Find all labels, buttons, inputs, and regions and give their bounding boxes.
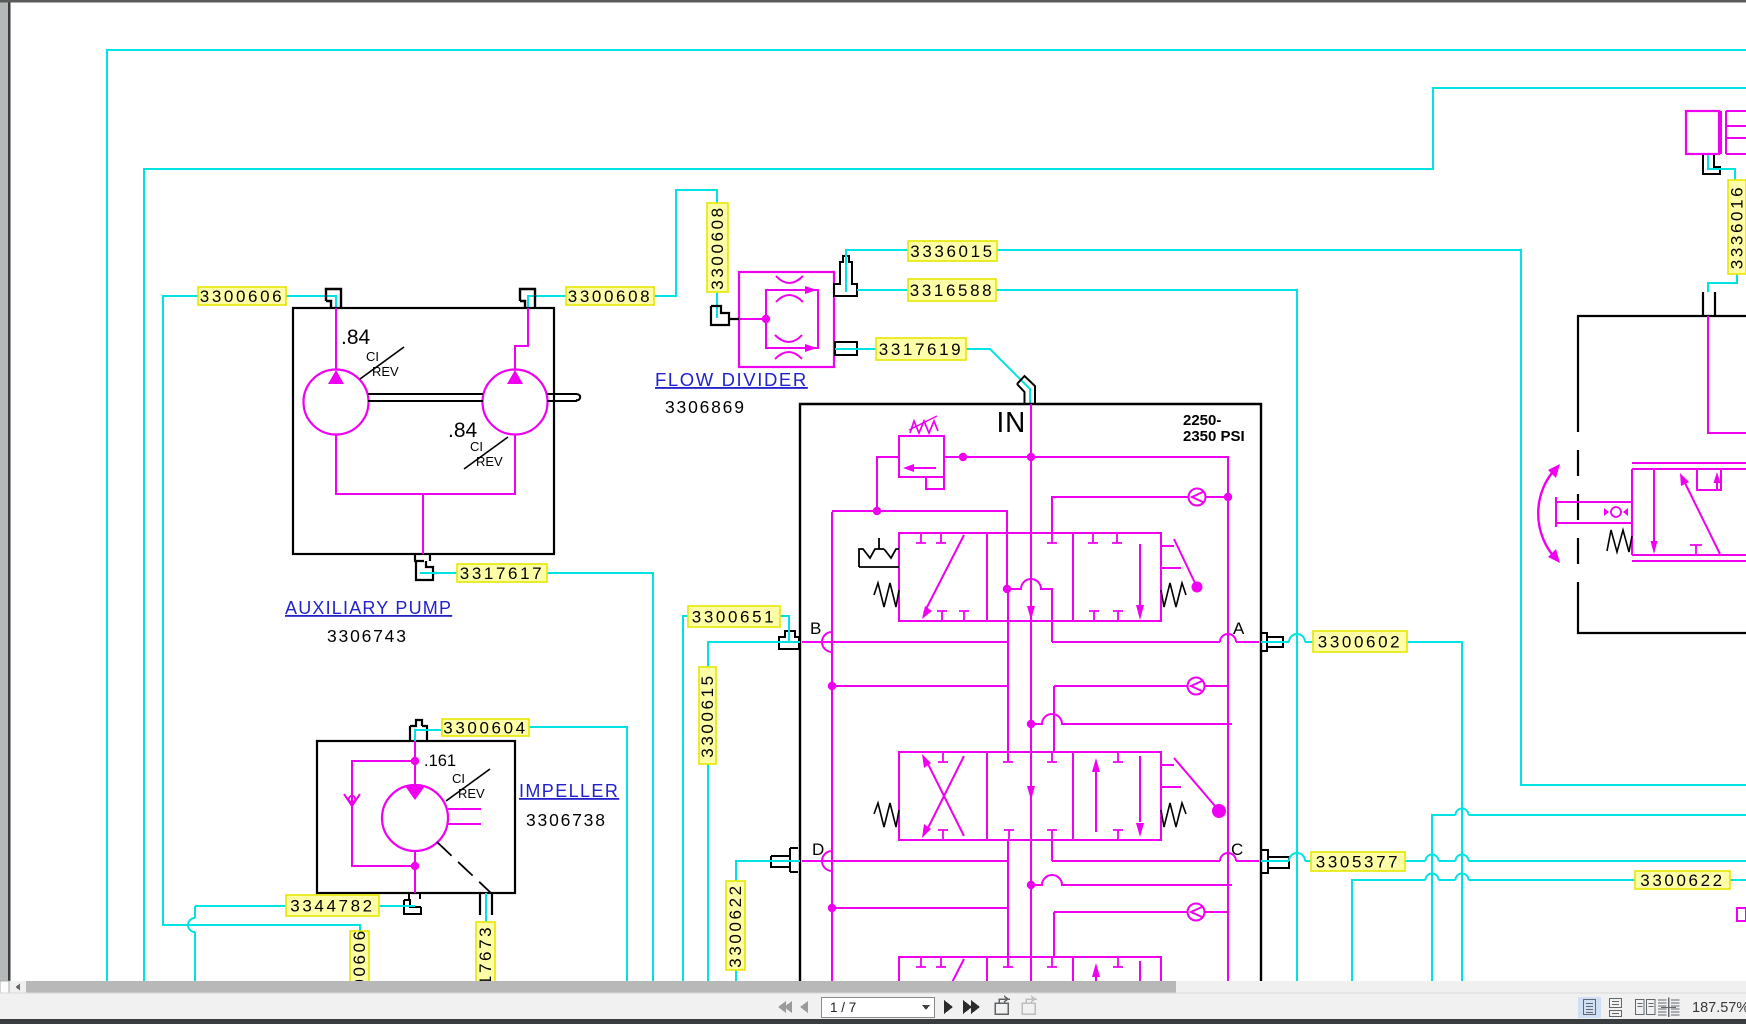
label 3305377	[1311, 852, 1405, 871]
wire port B line	[802, 533, 1008, 762]
label 3300622 right	[1635, 871, 1730, 889]
label 3300608 vertical	[707, 203, 728, 292]
impeller check symbol	[344, 794, 360, 806]
label 3300651	[688, 606, 780, 627]
svg-text:IMPELLER: IMPELLER	[519, 781, 619, 801]
check valve CV1	[1052, 497, 1228, 533]
impeller shaft lines	[448, 809, 481, 824]
auxiliary pump block 3306743	[293, 308, 554, 554]
svg-text:REV: REV	[458, 786, 485, 801]
valve V1 right spring	[1161, 583, 1186, 607]
valve V2 right spring	[1161, 803, 1186, 827]
top border	[0, 0, 1746, 3]
impeller bypass loop	[352, 761, 415, 893]
hop port A over right rail	[1220, 634, 1236, 642]
svg-text:187.57%: 187.57%	[1692, 1000, 1746, 1016]
valve V1 solenoid	[1161, 539, 1195, 583]
label 3317617	[457, 564, 547, 582]
svg-text:3336016: 3336016	[1728, 185, 1746, 269]
check valve CV3	[1054, 912, 1228, 957]
right assembly actuator piston	[1556, 497, 1632, 527]
icon first page	[778, 1001, 792, 1013]
svg-text:3306743: 3306743	[327, 626, 408, 646]
svg-text:3300606: 3300606	[200, 287, 284, 306]
junction dot impeller bottom	[411, 862, 419, 870]
spool valve V3	[899, 957, 1161, 1024]
junction dot 832,908	[828, 904, 836, 912]
svg-text:3300604: 3300604	[443, 719, 527, 738]
svg-text:IN: IN	[996, 406, 1026, 439]
label 3316588	[908, 279, 996, 301]
flow divider 3306869 outer box	[739, 272, 834, 367]
svg-text:3300622: 3300622	[1640, 871, 1724, 890]
bottom scrollbar thumb	[26, 981, 1176, 993]
svg-text:A: A	[1233, 619, 1245, 638]
bottom dark strip	[0, 1019, 1746, 1024]
svg-text:FLOW DIVIDER: FLOW DIVIDER	[655, 369, 808, 390]
fitting port A	[1261, 633, 1283, 651]
svg-text:3300608: 3300608	[568, 287, 652, 306]
label 3300608	[566, 287, 654, 305]
wire feed row 724	[1031, 714, 1232, 724]
fitting impeller bottom-right pipe	[480, 893, 492, 915]
left scrollbar strip	[0, 2, 8, 981]
label 3336015	[908, 241, 997, 261]
wire 3317617	[420, 573, 653, 981]
right assembly dashed box	[1578, 316, 1746, 406]
impeller inlet line	[414, 741, 416, 786]
svg-text:1 / 7: 1 / 7	[830, 1000, 856, 1015]
svg-text:3306869: 3306869	[665, 397, 746, 417]
wire 3336015	[846, 250, 1746, 785]
fitting flow divider inlet elbow	[711, 306, 739, 325]
wire 3317619	[835, 349, 1030, 404]
svg-text:3306738: 3306738	[526, 810, 607, 830]
junction dot relief drain	[873, 507, 881, 515]
pilot cylinder top right	[1686, 111, 1719, 154]
relief valve box	[899, 436, 944, 477]
junction dot CV1 right	[1224, 493, 1232, 501]
wire port A line	[1052, 589, 1259, 642]
svg-text:D: D	[812, 840, 824, 859]
wire left distribution line	[832, 511, 1007, 981]
spool valve V2	[899, 752, 1161, 840]
icon prev page	[800, 1001, 808, 1013]
fitting flow divider top outlet tee	[834, 256, 857, 296]
fitting port B	[779, 631, 799, 649]
fitting port D	[771, 848, 798, 872]
pump P2 inlet line	[515, 308, 528, 370]
svg-text:CI: CI	[452, 771, 465, 786]
icon next view (disabled)	[1022, 996, 1037, 1014]
svg-text:3317619: 3317619	[879, 340, 963, 359]
bottom scrollbar left arrow	[16, 984, 21, 991]
relief valve lower step	[926, 477, 944, 489]
shuttle symbol	[1611, 507, 1621, 517]
svg-text:3305377: 3305377	[1316, 853, 1400, 872]
svg-text:2250-: 2250-	[1183, 412, 1221, 429]
page left edge line	[8, 2, 11, 981]
hop 3300602 over 1297	[1289, 634, 1305, 642]
wire 3305377	[1261, 860, 1746, 862]
wire 3300606	[163, 296, 360, 981]
pump P2 triangle	[507, 370, 523, 384]
bottom scrollbar track	[0, 981, 1746, 993]
spool valve V1	[899, 533, 1161, 621]
right assembly arc lever	[1538, 468, 1556, 559]
pump P1 inlet line	[335, 308, 337, 370]
icon continuous	[1610, 999, 1622, 1017]
flow divider venturi arcs top	[776, 276, 803, 302]
wire 3316588	[857, 290, 1297, 981]
junction dot IN at relief row	[1027, 453, 1035, 461]
svg-text:B: B	[810, 619, 821, 638]
svg-text:CI: CI	[470, 439, 483, 454]
pump outlet collector	[336, 434, 515, 554]
icon last page	[963, 1000, 980, 1014]
label 3317619	[876, 338, 966, 360]
wire return rail 815	[1432, 815, 1746, 981]
valve V1 left symbol (pressure comp)	[859, 538, 899, 567]
wire right rail	[1227, 457, 1229, 981]
wire 3317673	[485, 893, 487, 922]
flow divider venturi arcs bottom	[775, 335, 802, 359]
flow divider inner box	[766, 290, 818, 348]
svg-text:C: C	[1231, 840, 1243, 859]
hop port C over right rail	[1220, 853, 1236, 861]
fitting IN elbow 45deg	[1017, 376, 1035, 403]
junction dot impeller top	[411, 757, 419, 765]
svg-text:.84: .84	[341, 326, 371, 349]
fitting right assembly top port	[1703, 292, 1715, 316]
impeller pump circle	[382, 785, 448, 851]
label 3300602	[1313, 631, 1407, 652]
page number box	[822, 998, 935, 1018]
relief valve spring	[910, 421, 938, 433]
wire 3300602	[1261, 642, 1462, 981]
check valve CV2	[1054, 686, 1228, 752]
fitting aux pump left port	[326, 289, 341, 308]
svg-text:3300602: 3300602	[1318, 633, 1402, 652]
icon two pages continuous	[1658, 998, 1680, 1018]
control valve block outline	[800, 404, 1261, 981]
flow divider inlet line	[739, 318, 766, 320]
junction dot 832,686	[828, 682, 836, 690]
toolbar background	[0, 993, 1746, 1019]
right assembly valve	[1632, 463, 1746, 561]
junction dot flow divider inlet	[762, 315, 770, 323]
pump P2 circle	[483, 370, 548, 435]
svg-text:3316588: 3316588	[910, 281, 994, 300]
wire port C line	[1052, 840, 1259, 861]
impeller drive dashed diagonal	[437, 842, 491, 893]
svg-text:2350 PSI: 2350 PSI	[1183, 428, 1245, 445]
svg-text:3300615: 3300615	[698, 673, 717, 757]
magenta stub right edge	[1737, 908, 1746, 921]
fitting aux pump right port	[520, 289, 535, 308]
label 3300622 vertical	[726, 881, 745, 970]
wire 3336016	[1708, 155, 1737, 292]
wire 3300622 left	[736, 861, 800, 981]
junction dot IN 885	[1027, 881, 1035, 889]
hop left rail at port B	[822, 632, 832, 652]
relief valve arrow	[908, 467, 936, 469]
svg-text:3300608: 3300608	[708, 205, 727, 289]
hop left rail at port D	[822, 851, 832, 871]
label 3300604	[442, 719, 529, 736]
junction dot IN 724	[1027, 720, 1035, 728]
bottom scrollbar corner box	[0, 981, 9, 993]
pump P1 circle	[304, 370, 369, 435]
junction dot relief feed at 963	[959, 453, 967, 461]
svg-text:.161: .161	[424, 752, 456, 770]
svg-text:REV: REV	[476, 454, 503, 469]
wire IN line vertical	[1030, 404, 1032, 981]
icon single page (active)	[1578, 997, 1601, 1018]
impeller triangle	[405, 786, 425, 800]
svg-text:CI: CI	[366, 349, 379, 364]
svg-text:3317617: 3317617	[460, 564, 544, 583]
valve V2 left spring	[874, 803, 899, 827]
fitting aux pump bottom	[414, 554, 437, 580]
fitting port C	[1261, 850, 1289, 873]
icon next page	[944, 1000, 953, 1014]
wire 3300604	[415, 727, 627, 981]
label 3336016 vertical	[1728, 180, 1746, 274]
wire pilot line inside box	[1708, 316, 1746, 433]
label 3300606	[198, 287, 286, 305]
wire left row 908	[832, 876, 1008, 968]
wire 3300622 right	[1352, 880, 1746, 981]
wire port D line	[802, 839, 1008, 876]
pump P1 triangle	[328, 370, 344, 384]
wire 3344782	[195, 906, 415, 981]
wire 3300651	[683, 616, 789, 981]
relief valve feed line	[877, 457, 1228, 511]
label 3344782	[286, 895, 379, 916]
icon two pages	[1636, 1000, 1656, 1015]
icon previous view	[995, 996, 1010, 1014]
flow divider outlet arrows	[805, 286, 817, 294]
svg-text:3300622: 3300622	[726, 883, 745, 967]
svg-text:3300651: 3300651	[692, 608, 776, 627]
svg-text:REV: REV	[372, 364, 399, 379]
fitting pilot elbow	[1703, 155, 1720, 174]
wire feed row 885	[1031, 875, 1232, 885]
svg-text:3336015: 3336015	[910, 242, 994, 261]
impeller block 3306738	[317, 741, 515, 893]
valve V2 solenoid	[1161, 758, 1215, 806]
svg-text:AUXILIARY PUMP: AUXILIARY PUMP	[285, 598, 452, 618]
fitting impeller bottom-left elbow	[404, 893, 421, 914]
wire 3300608	[528, 190, 717, 318]
label 3300606 vertical bottom	[350, 931, 369, 1010]
svg-text:3344782: 3344782	[290, 897, 374, 916]
label 3300615 vertical	[699, 667, 716, 764]
right assembly spring	[1607, 530, 1632, 552]
fitting impeller top elbow	[410, 720, 427, 741]
pump shaft lines	[368, 394, 580, 401]
hop 3344782 over 925	[188, 918, 195, 932]
wire 3300615	[708, 642, 800, 981]
label 3317673 vertical	[476, 922, 495, 1012]
fitting flow divider bottom outlet	[835, 342, 857, 355]
valve V1 left spring	[874, 583, 899, 607]
wire left row 686	[832, 685, 1008, 687]
